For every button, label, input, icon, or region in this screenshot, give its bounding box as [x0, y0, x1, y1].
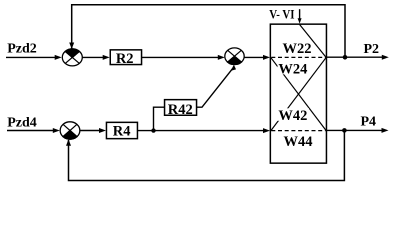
- svg-text:P4: P4: [361, 115, 377, 130]
- svg-text:R4: R4: [113, 124, 131, 140]
- svg-text:Pzd4: Pzd4: [7, 115, 37, 130]
- svg-text:Pzd2: Pzd2: [7, 41, 37, 56]
- svg-text:R2: R2: [116, 51, 134, 67]
- svg-text:W44: W44: [284, 134, 313, 150]
- svg-text:V- VI: V- VI: [269, 8, 294, 22]
- svg-text:W22: W22: [283, 41, 312, 57]
- svg-text:W42: W42: [278, 108, 307, 124]
- svg-text:P2: P2: [364, 42, 380, 57]
- svg-text:R42: R42: [168, 102, 193, 118]
- svg-text:W24: W24: [278, 62, 307, 78]
